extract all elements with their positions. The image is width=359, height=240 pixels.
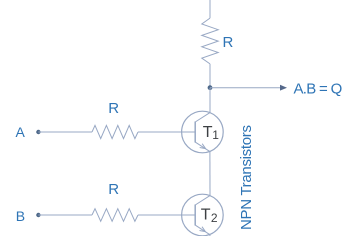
node: input B terminal dot: [36, 213, 40, 217]
wire: resistor to T1 base: [138, 131, 195, 133]
svg-text:A.B = Q: A.B = Q: [294, 81, 342, 98]
wire: input B to base resistor: [38, 214, 92, 216]
svg-text:T: T: [203, 124, 213, 141]
wire: Vcc rail from top edge to collector resistor: [209, 0, 211, 18]
svg-text:R: R: [108, 181, 119, 198]
resistor R (input A base resistor, horizontal zigzag): [92, 125, 138, 138]
resistor R (collector load, vertical zigzag): [202, 18, 218, 64]
transistor T1 (NPN): [182, 111, 224, 153]
svg-text:A: A: [16, 124, 26, 140]
wire: T2 emitter to bottom edge: [209, 235, 211, 237]
node: output junction dot: [208, 85, 213, 90]
wire: output line to arrow: [210, 87, 281, 89]
svg-text:1: 1: [212, 128, 219, 142]
svg-text:2: 2: [211, 211, 218, 225]
node: input A terminal dot: [36, 130, 40, 134]
label T2 (transistor designator): [201, 206, 218, 225]
svg-text:R: R: [108, 100, 119, 117]
label T1 (transistor designator): [203, 124, 220, 142]
wire: junction down to T1 collector: [209, 88, 211, 113]
transistor T2 (NPN): [182, 194, 224, 236]
svg-text:T: T: [201, 206, 211, 223]
svg-text:NPN Transistors: NPN Transistors: [238, 125, 255, 230]
svg-text:R: R: [223, 34, 234, 51]
wire: resistor to output junction: [209, 64, 211, 88]
resistor R (input B base resistor, horizontal zigzag): [92, 209, 138, 222]
svg-text:B: B: [16, 208, 25, 224]
wire: input A to base resistor: [38, 131, 92, 133]
wire: T1 emitter to T2 collector: [209, 152, 211, 196]
arrowhead: output arrow: [280, 85, 287, 91]
wire: resistor to T2 base: [138, 214, 195, 216]
